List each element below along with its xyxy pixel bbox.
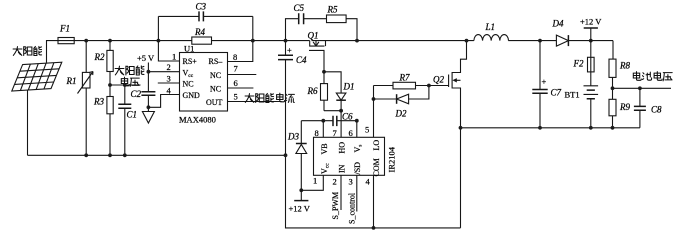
svg-text:C7: C7: [551, 88, 562, 98]
gate-driver U2 IR2104 box: [314, 137, 385, 175]
node junction COM/ground rail: [372, 226, 376, 230]
svg-text:NC: NC: [210, 85, 221, 94]
node junction D3/+12V/pin1: [299, 188, 303, 192]
resistor R5: [327, 15, 347, 23]
wire bus Q1 to Q2 node: [312, 40, 474, 42]
wire battery-voltage net: [613, 87, 672, 89]
svg-text:C1: C1: [127, 110, 138, 120]
capacitor C6 bootstrap: [333, 116, 337, 126]
node junction LO/D2: [372, 97, 376, 101]
resistor R4 (shunt): [192, 37, 212, 44]
ground: [142, 112, 154, 124]
capacitor C4 electrolytic: [285, 41, 287, 156]
wire bus R4 to C4 node: [212, 40, 310, 42]
pin 4 COM lead: [373, 175, 375, 228]
resistor R9: [609, 99, 616, 116]
svg-text:F2: F2: [573, 59, 584, 69]
svg-text:RS+: RS+: [183, 57, 198, 66]
svg-text:D1: D1: [343, 82, 355, 92]
node junction bus/pin8 vertical: [251, 39, 255, 43]
node junction rail/R1: [84, 153, 88, 157]
svg-text:BT1: BT1: [565, 90, 580, 100]
svg-text:HO: HO: [338, 142, 347, 154]
node junction rail/R3: [108, 153, 112, 157]
wire solar top lead: [47, 41, 59, 63]
svg-text:S_PWM: S_PWM: [331, 192, 340, 220]
wire top bus F1 to R4: [74, 40, 192, 42]
svg-text:3: 3: [167, 74, 171, 84]
svg-text:+: +: [287, 45, 292, 55]
svg-text:C4: C4: [296, 55, 307, 65]
node junction bus/Q2: [465, 39, 469, 43]
svg-text:1: 1: [172, 52, 176, 62]
svg-text:+12 V: +12 V: [580, 17, 602, 27]
svg-text:C8: C8: [651, 105, 662, 115]
pin 8 RS-: [228, 16, 253, 61]
node junction left rail / C4: [284, 153, 288, 157]
svg-text:R2: R2: [94, 52, 105, 62]
label 太阳能电压 (solar voltage): [115, 66, 144, 86]
svg-text:F1: F1: [59, 24, 70, 34]
pin 6 VS: [356, 121, 358, 138]
wire R5 down to bus: [346, 19, 357, 41]
node junction C2/GND: [147, 105, 151, 109]
svg-text:NC: NC: [183, 80, 194, 89]
node junction R8/R9 battery-voltage: [611, 86, 615, 90]
battery BT1: [590, 72, 592, 86]
svg-text:Q2: Q2: [433, 75, 444, 85]
node junction Q1 gate / R6 / D1: [322, 70, 326, 74]
label 太阳能 (solar): [13, 46, 42, 55]
svg-text:U1: U1: [184, 44, 194, 54]
solar panel PV: [12, 62, 62, 91]
node junction bus/R2: [108, 39, 112, 43]
svg-text:8: 8: [233, 52, 237, 62]
wire bottom left rail: [28, 154, 286, 156]
svg-text:R9: R9: [619, 102, 630, 112]
svg-text:7: 7: [234, 64, 238, 74]
wire VB net D3 to C6 to VS: [301, 120, 357, 122]
svg-text:C5: C5: [294, 3, 305, 13]
node junction bus/R1: [84, 39, 88, 43]
resistor R6: [323, 72, 325, 111]
svg-text:R1: R1: [66, 76, 77, 86]
capacitor C7 electrolytic output: [539, 41, 541, 128]
+12 V supply lower: [300, 190, 302, 200]
wire ground rail bottom: [286, 155, 461, 228]
svg-text:/SD: /SD: [353, 162, 362, 175]
svg-text:R8: R8: [619, 61, 630, 71]
label 太阳能电流 (solar current): [245, 93, 294, 102]
diode D2: [374, 86, 429, 100]
node junction bus/R5 right: [355, 39, 359, 43]
svg-text:2: 2: [333, 177, 337, 187]
svg-text:R5: R5: [327, 5, 338, 15]
svg-text:5: 5: [234, 92, 238, 102]
svg-text:NC: NC: [210, 71, 221, 80]
wire HO to pin7: [340, 111, 342, 138]
node junction rail/C1: [123, 153, 127, 157]
node junction C1 tap: [123, 83, 127, 87]
svg-text:+: +: [542, 77, 547, 87]
svg-text:7: 7: [333, 128, 337, 138]
svg-text:R7: R7: [399, 73, 410, 83]
svg-text:IR2104: IR2104: [387, 146, 397, 172]
+12 V supply upper: [590, 28, 592, 41]
svg-text:+12 V: +12 V: [289, 204, 311, 214]
capacitor C3: [158, 15, 252, 17]
svg-text:D3: D3: [287, 132, 299, 142]
capacitor C8: [639, 88, 641, 128]
node junction D4/F2/+12V: [589, 39, 593, 43]
svg-text:GND: GND: [183, 91, 201, 100]
op-amp U1 MAX4080 box: [180, 53, 228, 112]
node junction bus/C7: [538, 39, 542, 43]
svg-text:LO: LO: [372, 140, 381, 151]
svg-text:L1: L1: [485, 22, 496, 32]
svg-text:MAX4080: MAX4080: [179, 115, 216, 125]
diode D4: [556, 35, 568, 46]
svg-text:R3: R3: [93, 97, 104, 107]
resistor R3: [107, 97, 113, 114]
diode D3 bootstrap: [300, 121, 302, 191]
node junction R2/R3 divider: [108, 83, 112, 87]
svg-text:C3: C3: [196, 2, 207, 12]
label 电池电压 (battery voltage): [633, 72, 672, 81]
node junction VB/pin8: [321, 119, 325, 123]
node junction rail/C7: [538, 126, 542, 130]
svg-text:S_control: S_control: [348, 192, 357, 224]
wire C5 to R5: [304, 18, 327, 20]
svg-text:6: 6: [234, 78, 238, 88]
capacitor C1: [124, 85, 126, 155]
node junction R7/D2/gate: [427, 84, 431, 88]
pin 2 Vcc: [148, 71, 179, 73]
node junction R6/D1 bottom (HO net): [339, 109, 343, 113]
svg-text:D4: D4: [552, 19, 564, 29]
pin 5 LO: [373, 86, 375, 138]
fuse F2: [590, 41, 592, 58]
svg-text:5: 5: [365, 125, 369, 135]
node junction rail/Q2 source: [459, 126, 463, 130]
svg-text:R4: R4: [194, 27, 205, 37]
node junction bus/RS+: [157, 39, 161, 43]
svg-text:+5 V: +5 V: [137, 53, 155, 63]
node junction C8 tap: [638, 86, 642, 90]
pin 1 RS+: [158, 16, 179, 61]
svg-text:Q1: Q1: [308, 31, 319, 41]
wire output common rail: [461, 127, 640, 129]
resistor R2: [109, 41, 111, 156]
pin 5 OUT solar-current output: [228, 101, 282, 103]
svg-text:OUT: OUT: [206, 98, 223, 107]
svg-text:C6: C6: [342, 112, 353, 122]
resistor R7: [374, 85, 394, 87]
svg-text:C2: C2: [131, 89, 142, 99]
pin 8 VB: [322, 121, 324, 138]
svg-text:3: 3: [349, 177, 353, 187]
svg-text:IN: IN: [338, 164, 347, 173]
wire snubber loop up: [286, 19, 299, 41]
wire solar bottom lead: [27, 90, 29, 155]
wire solar-voltage net: [110, 84, 141, 86]
wire bus L1 to D4: [508, 40, 556, 42]
pin 6 NC: [228, 87, 254, 89]
capacitor C2: [141, 92, 155, 96]
pin 1 Vcc lead: [301, 175, 323, 190]
pin 2 IN lead S_PWM: [340, 175, 342, 210]
svg-text:8: 8: [315, 128, 319, 138]
svg-text:RS–: RS–: [209, 57, 224, 66]
pin 4 GND: [148, 95, 179, 108]
resistor R8: [612, 41, 614, 60]
svg-text:R6: R6: [307, 86, 318, 96]
node junction rail/R9: [611, 126, 615, 130]
pin 3 SD lead S_control: [356, 175, 358, 211]
svg-text:1: 1: [313, 176, 317, 186]
fuse F1: [58, 38, 74, 44]
pin 7 NC: [228, 74, 257, 76]
node junction +5V/Vcc: [147, 70, 151, 74]
wire +5V stub: [147, 63, 149, 92]
transistor Q2 N-MOSFET low-side: [449, 41, 467, 228]
svg-text:COM: COM: [372, 158, 381, 176]
svg-text:2: 2: [167, 62, 171, 72]
svg-text:VB: VB: [320, 143, 329, 154]
node junction bus/C4/C5: [284, 39, 288, 43]
diode D1: [324, 72, 341, 111]
resistor R1 (rheostat): [85, 41, 87, 156]
capacitor C5: [299, 13, 304, 24]
node junction rail/BT1: [589, 126, 593, 130]
svg-text:D2: D2: [395, 109, 407, 119]
pin 3 NC: [158, 82, 180, 84]
svg-text:6: 6: [349, 128, 353, 138]
node junction VS/pin6: [355, 119, 359, 123]
